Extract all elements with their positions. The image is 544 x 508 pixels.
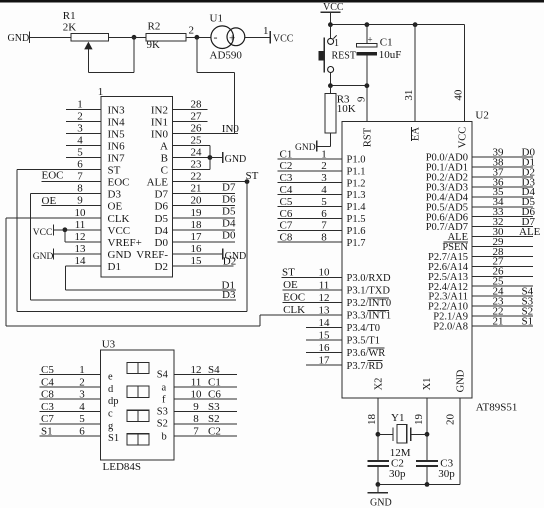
- svg-text:IN7: IN7: [108, 153, 126, 165]
- svg-text:IN4: IN4: [108, 116, 126, 128]
- svg-text:21: 21: [191, 183, 202, 195]
- wire crystal ground rail: [378, 483, 460, 485]
- svg-text:18: 18: [191, 219, 203, 231]
- node junction VCC-VREF+: [63, 227, 68, 232]
- svg-text:27: 27: [191, 110, 203, 122]
- wire bottom link: [330, 85, 367, 87]
- wire X1 pin 19 drop: [426, 398, 428, 461]
- svg-text:CLK: CLK: [283, 304, 305, 316]
- node junction X2-crystal: [376, 432, 381, 437]
- svg-text:f: f: [162, 395, 166, 406]
- svg-text:OE: OE: [42, 195, 57, 207]
- svg-text:B: B: [161, 153, 168, 165]
- wire switch to bottom link: [329, 73, 331, 86]
- svg-text:9: 9: [77, 195, 83, 207]
- svg-text:e: e: [108, 372, 113, 383]
- pushbutton S1 REST top contact: [328, 38, 334, 44]
- svg-text:26: 26: [191, 122, 203, 134]
- svg-text:25: 25: [191, 134, 203, 146]
- svg-text:10: 10: [191, 389, 203, 401]
- svg-text:a: a: [162, 382, 167, 393]
- svg-text:OE: OE: [108, 201, 123, 213]
- svg-text:c: c: [108, 409, 113, 420]
- svg-text:3: 3: [79, 389, 85, 401]
- U3 pin 4 wire: [40, 411, 101, 413]
- svg-text:D4: D4: [155, 225, 169, 237]
- resistor R3 body: [325, 93, 336, 133]
- svg-text:D4: D4: [222, 218, 236, 230]
- wire CLK net routing: [5, 218, 7, 326]
- capacitor C1 plus plate: [357, 44, 378, 48]
- svg-text:S1: S1: [41, 426, 53, 438]
- svg-text:S4: S4: [157, 369, 169, 380]
- U2 pin 28 stub: [472, 255, 533, 257]
- svg-text:P3.7/RD: P3.7/RD: [347, 361, 384, 372]
- svg-text:C: C: [161, 165, 168, 177]
- svg-text:ST: ST: [108, 165, 121, 177]
- svg-text:9: 9: [193, 401, 199, 413]
- svg-text:S4: S4: [208, 364, 220, 376]
- svg-text:IN0: IN0: [151, 128, 169, 140]
- U2 pin 22 wire: [472, 315, 533, 317]
- U2 pin 24 wire: [472, 295, 533, 297]
- U3 pin 11 wire: [174, 386, 237, 388]
- U2 pin 15 stub: [306, 339, 342, 341]
- svg-text:b: b: [162, 432, 167, 443]
- svg-text:IN3: IN3: [108, 104, 126, 116]
- wire U1 to VCC: [245, 36, 270, 38]
- U2 pin 33 wire: [472, 216, 533, 218]
- svg-text:P3.0/RXD: P3.0/RXD: [347, 273, 391, 284]
- svg-text:C3: C3: [280, 172, 293, 184]
- U2 pin 2 C2 wire: [277, 170, 342, 172]
- node junction address to ground: [208, 155, 213, 160]
- svg-text:VCC: VCC: [108, 225, 131, 237]
- wire D1 net routing: [64, 266, 66, 290]
- U2 pin 6 C6 wire: [277, 217, 342, 219]
- U2 pin 38 wire: [472, 166, 533, 168]
- svg-text:C5: C5: [280, 196, 293, 208]
- svg-text:10: 10: [75, 207, 87, 219]
- svg-text:VCC: VCC: [458, 127, 469, 149]
- svg-text:6: 6: [77, 159, 83, 171]
- svg-text:17: 17: [319, 355, 331, 367]
- svg-text:P1.5: P1.5: [347, 214, 366, 225]
- node junction rail at switch: [328, 22, 333, 27]
- wire D3 net routing: [29, 194, 31, 300]
- U2 pin 16 stub: [306, 352, 342, 354]
- ADC converter chip body: [101, 96, 173, 277]
- top page border: [0, 0, 544, 2]
- U2 pin 7 C7 wire: [277, 229, 342, 231]
- sensor U1 AD590 symbol: [211, 26, 234, 49]
- svg-text:7: 7: [321, 220, 327, 232]
- wire rail to switch S1: [329, 25, 331, 39]
- svg-text:8: 8: [193, 413, 199, 425]
- svg-text:IN1: IN1: [151, 116, 168, 128]
- svg-text:U2: U2: [475, 110, 488, 122]
- U3 pin 6 wire: [40, 435, 101, 437]
- svg-text:7: 7: [193, 426, 199, 438]
- svg-text:P1.4: P1.4: [347, 202, 367, 213]
- svg-text:1: 1: [321, 148, 327, 160]
- svg-text:12: 12: [319, 292, 330, 304]
- U3 pin 5 wire: [40, 423, 101, 425]
- svg-text:g: g: [108, 421, 114, 432]
- svg-text:IN6: IN6: [108, 140, 126, 152]
- R1 wiper arrow: [84, 42, 92, 50]
- svg-text:8: 8: [321, 232, 327, 244]
- svg-text:3: 3: [77, 122, 83, 134]
- svg-text:GND: GND: [8, 33, 30, 44]
- svg-text:D3: D3: [108, 189, 122, 201]
- svg-text:5: 5: [79, 413, 85, 425]
- svg-text:20: 20: [191, 195, 203, 207]
- svg-text:9K: 9K: [147, 39, 161, 51]
- ADC pin 25 wire: [173, 144, 210, 146]
- U2 pin 36 wire: [472, 186, 533, 188]
- node junction to IN0: [195, 35, 200, 40]
- svg-text:1: 1: [77, 98, 83, 110]
- U2 pin 35 wire: [472, 196, 533, 198]
- svg-text:1: 1: [334, 38, 339, 49]
- svg-text:IN0: IN0: [222, 123, 240, 135]
- U2 pin 23 wire: [472, 305, 533, 307]
- U2 pin 1 C1 wire: [277, 158, 342, 160]
- svg-text:31: 31: [403, 90, 415, 101]
- svg-text:19: 19: [191, 207, 203, 219]
- wire X2 pin 18 drop: [377, 398, 379, 461]
- wire GND pin 20 drop: [459, 398, 461, 484]
- wire VCC pin 40 to rail: [463, 25, 465, 122]
- capacitor C3: [416, 460, 438, 462]
- svg-text:P3.3/INT1: P3.3/INT1: [347, 311, 392, 322]
- U2 pin 5 C5 wire: [277, 206, 342, 208]
- svg-text:11: 11: [75, 219, 86, 231]
- svg-text:D1: D1: [108, 261, 121, 273]
- svg-text:3: 3: [321, 172, 327, 184]
- svg-text:16: 16: [191, 243, 203, 255]
- U3 digit cell 2: [127, 386, 149, 397]
- svg-text:-: -: [214, 30, 218, 44]
- svg-text:AT89S51: AT89S51: [476, 402, 518, 414]
- U2 pin 25 stub: [472, 285, 533, 287]
- svg-text:C2: C2: [280, 160, 293, 172]
- svg-text:P1.1: P1.1: [347, 166, 366, 177]
- U2 pin 27 stub: [472, 265, 533, 267]
- svg-text:X1: X1: [422, 378, 433, 391]
- U2 pin 32 wire: [472, 226, 533, 228]
- wire to ground tick: [210, 157, 223, 159]
- U2 pin 11 OE wire: [283, 289, 342, 291]
- ADC pin 11 wire: [54, 229, 102, 231]
- svg-text:D5: D5: [155, 213, 169, 225]
- svg-text:EOC: EOC: [42, 169, 64, 181]
- svg-text:11: 11: [191, 376, 202, 388]
- svg-text:C4: C4: [41, 376, 54, 388]
- ADC pin 28 stub: [173, 108, 208, 110]
- svg-text:1: 1: [79, 364, 85, 376]
- U3 digit cell 1: [127, 362, 149, 373]
- node junction link left: [328, 83, 333, 88]
- svg-text:d: d: [108, 384, 114, 395]
- svg-text:P2.0/A8: P2.0/A8: [433, 322, 468, 333]
- U3 pin 3 wire: [40, 398, 101, 400]
- U2 pin 37 wire: [472, 176, 533, 178]
- svg-text:ALE: ALE: [519, 226, 541, 238]
- U2 pin 14 stub: [306, 327, 342, 329]
- svg-text:VREF+: VREF+: [108, 237, 142, 249]
- ADC pin 8 D3 wire: [30, 193, 101, 195]
- svg-text:+: +: [368, 34, 373, 44]
- node junction link right: [365, 83, 370, 88]
- U3 digit cell 3: [127, 410, 149, 421]
- ADC pin 20 D6 wire: [173, 205, 235, 207]
- svg-text:12: 12: [75, 231, 86, 243]
- node junction R1 wiper to wire: [132, 35, 137, 40]
- svg-text:D5: D5: [222, 206, 236, 218]
- svg-text:P1.3: P1.3: [347, 190, 366, 201]
- svg-text:C7: C7: [41, 413, 54, 425]
- svg-text:13: 13: [319, 304, 331, 316]
- ADC pin 1 stub: [66, 108, 101, 110]
- svg-text:GND: GND: [370, 497, 392, 508]
- svg-text:40: 40: [453, 89, 465, 101]
- U2 pin 21 wire: [472, 325, 533, 327]
- ADC pin 15 D2 wire: [173, 265, 234, 267]
- svg-text:4: 4: [77, 134, 83, 146]
- microcontroller U2 body: [342, 122, 472, 399]
- ADC pin 9 OE wire: [42, 205, 102, 207]
- svg-text:GND: GND: [225, 154, 247, 165]
- wire R2 to U1: [186, 36, 211, 38]
- svg-text:A: A: [160, 140, 168, 152]
- svg-text:30p: 30p: [438, 468, 455, 480]
- svg-text:RST: RST: [362, 127, 373, 147]
- svg-text:IN2: IN2: [151, 104, 168, 116]
- svg-text:C4: C4: [280, 184, 293, 196]
- svg-text:P1.7: P1.7: [347, 238, 366, 249]
- svg-text:24: 24: [191, 147, 203, 159]
- svg-text:C5: C5: [41, 364, 54, 376]
- ADC pin 14 D1 wire: [65, 265, 101, 267]
- pushbutton S1 bottom contact: [328, 67, 334, 73]
- wire link to R3: [329, 86, 331, 94]
- U2 pin 13 CLK wire: [260, 314, 342, 316]
- ADC pin 24 wire: [173, 157, 210, 159]
- ADC pin 19 D5 wire: [173, 217, 235, 219]
- svg-text:C2: C2: [208, 426, 221, 438]
- U2 pin 30 ALE wire: [472, 236, 533, 238]
- ADC pin 4 stub: [66, 144, 101, 146]
- svg-text:VCC: VCC: [273, 34, 294, 45]
- wire ST net routing: [16, 170, 18, 312]
- svg-text:D2: D2: [223, 255, 236, 267]
- svg-text:C6: C6: [280, 208, 293, 220]
- wire EA pin 31 to rail: [414, 25, 416, 122]
- svg-text:10K: 10K: [337, 103, 356, 115]
- svg-text:P3.1/TXD: P3.1/TXD: [347, 285, 391, 296]
- svg-text:D0: D0: [155, 237, 169, 249]
- svg-text:VREF-: VREF-: [136, 249, 168, 261]
- wire junction to IN0 pin 26: [196, 37, 198, 72]
- pushbutton S1 actuator: [323, 38, 325, 73]
- svg-text:EOC: EOC: [108, 177, 130, 189]
- node junction rail C3: [425, 482, 430, 487]
- ADC pin 23 wire: [173, 169, 210, 171]
- svg-text:EA: EA: [411, 127, 422, 141]
- U2 pin 10 ST wire: [282, 276, 343, 278]
- U2 pin 12 EOC wire: [283, 301, 342, 303]
- node junction rail at EA: [413, 22, 418, 27]
- svg-text:9: 9: [356, 96, 368, 102]
- svg-text:5: 5: [321, 196, 327, 208]
- ADC pin 10 CLK wire: [6, 217, 101, 219]
- U3 pin 10 wire: [174, 398, 237, 400]
- ADC pin 27 stub: [173, 120, 208, 122]
- svg-text:AD590: AD590: [210, 49, 243, 61]
- wire R1 wiper loop: [88, 72, 134, 74]
- svg-text:D7: D7: [222, 181, 236, 193]
- svg-text:D0: D0: [222, 230, 236, 242]
- U2 pin 39 wire: [472, 156, 533, 158]
- svg-text:D2: D2: [155, 261, 168, 273]
- svg-text:C6: C6: [208, 389, 221, 401]
- svg-text:S3: S3: [157, 406, 168, 417]
- svg-text:C8: C8: [280, 232, 293, 244]
- svg-text:C1: C1: [280, 148, 293, 160]
- crystal Y1: [378, 433, 393, 435]
- ADC pin 22 ALE wire: [173, 181, 248, 183]
- svg-text:C3: C3: [41, 401, 54, 413]
- ADC pin 2 stub: [66, 120, 101, 122]
- U2 pin 4 C4 wire: [277, 194, 342, 196]
- svg-text:S2: S2: [208, 413, 220, 425]
- svg-text:21: 21: [493, 315, 504, 327]
- svg-text:LED84S: LED84S: [103, 461, 142, 473]
- svg-text:14: 14: [75, 255, 87, 267]
- ADC pin 17 D0 wire: [173, 241, 235, 243]
- svg-text:14: 14: [319, 317, 331, 329]
- wire VCC rail: [330, 24, 464, 26]
- svg-text:dp: dp: [108, 396, 119, 407]
- svg-text:16: 16: [319, 342, 331, 354]
- svg-text:1: 1: [263, 25, 269, 37]
- svg-text:2: 2: [189, 24, 195, 36]
- svg-text:S2: S2: [157, 419, 168, 430]
- svg-text:P1.0: P1.0: [347, 155, 366, 166]
- ADC pin 18 D4 wire: [173, 229, 235, 231]
- resistor R2 body: [146, 33, 186, 41]
- node junction rail C2: [376, 482, 381, 487]
- ADC pin 26 IN0 wire: [173, 132, 239, 134]
- svg-text:C1: C1: [208, 376, 221, 388]
- svg-text:2: 2: [79, 376, 85, 388]
- U3 pin 8 wire: [174, 423, 237, 425]
- U3 digit cell 4: [127, 434, 149, 445]
- power VCC (sensor): [269, 31, 271, 44]
- svg-text:P1.2: P1.2: [347, 178, 366, 189]
- svg-text:D6: D6: [222, 194, 236, 206]
- svg-text:22: 22: [191, 171, 202, 183]
- ADC pin 13 wire: [54, 253, 102, 255]
- svg-text:15: 15: [319, 329, 331, 341]
- svg-text:D1: D1: [222, 280, 235, 292]
- svg-text:R1: R1: [63, 10, 76, 22]
- wire RST pin 9 drop: [366, 86, 368, 122]
- wire rail to C1: [366, 25, 368, 44]
- ADC pin 6 ST wire: [17, 169, 101, 171]
- U2 pin 17 stub: [306, 364, 342, 366]
- ground GND (VREF-): [222, 248, 224, 259]
- svg-text:ALE: ALE: [147, 177, 169, 189]
- node junction X1-crystal: [425, 432, 430, 437]
- svg-text:P1.6: P1.6: [347, 226, 366, 237]
- ADC pin 12 wire: [64, 230, 66, 242]
- svg-text:15: 15: [191, 255, 203, 267]
- U2 pin 34 wire: [472, 206, 533, 208]
- svg-text:1: 1: [98, 86, 104, 98]
- svg-text:R2: R2: [148, 20, 161, 32]
- svg-text:P3.2/INT0: P3.2/INT0: [347, 298, 392, 309]
- svg-text:VCC: VCC: [33, 228, 53, 238]
- svg-text:GND: GND: [295, 143, 316, 153]
- svg-text:D7: D7: [155, 189, 169, 201]
- wire C1 to link: [366, 56, 368, 86]
- svg-text:EOC: EOC: [283, 292, 305, 304]
- svg-text:8: 8: [77, 183, 83, 195]
- ground GND (crystal): [377, 484, 379, 492]
- svg-text:C1: C1: [380, 37, 393, 49]
- resistor R1 potentiometer body: [71, 33, 109, 41]
- ground GND (address pins): [222, 152, 224, 163]
- svg-text:2: 2: [321, 160, 327, 172]
- svg-text:Y1: Y1: [391, 412, 404, 424]
- svg-text:IN5: IN5: [108, 128, 126, 140]
- svg-text:6: 6: [321, 208, 327, 220]
- svg-text:20: 20: [445, 414, 457, 426]
- node junction rail at C1: [365, 22, 370, 27]
- svg-text:P3.5/T1: P3.5/T1: [347, 336, 381, 347]
- svg-text:10uF: 10uF: [379, 49, 402, 61]
- U3 pin 1 wire: [40, 374, 101, 376]
- svg-text:GND: GND: [33, 252, 54, 262]
- svg-text:17: 17: [191, 231, 203, 243]
- svg-text:U3: U3: [102, 339, 116, 351]
- svg-text:2: 2: [77, 110, 83, 122]
- svg-text:+: +: [229, 33, 235, 45]
- svg-text:30p: 30p: [389, 468, 406, 480]
- svg-text:S3: S3: [208, 401, 220, 413]
- svg-text:4: 4: [321, 184, 327, 196]
- svg-text:4: 4: [79, 401, 85, 413]
- ADC pin 5 stub: [66, 157, 101, 159]
- capacitor C2: [367, 460, 389, 462]
- svg-text:10: 10: [319, 267, 331, 279]
- svg-text:C8: C8: [41, 389, 54, 401]
- node junction ST-ALE: [245, 179, 250, 184]
- svg-text:GND: GND: [456, 369, 467, 392]
- wire GND to R3 bottom: [317, 146, 331, 148]
- svg-text:GND: GND: [108, 249, 132, 261]
- wire GND to R1: [30, 36, 72, 38]
- svg-text:S1: S1: [522, 315, 534, 327]
- ADC pin 16 wire: [173, 253, 223, 255]
- svg-text:X2: X2: [374, 378, 385, 391]
- ADC pin 21 D7 wire: [173, 193, 235, 195]
- ADC pin 7 EOC wire: [42, 181, 102, 183]
- svg-text:5: 5: [77, 147, 83, 159]
